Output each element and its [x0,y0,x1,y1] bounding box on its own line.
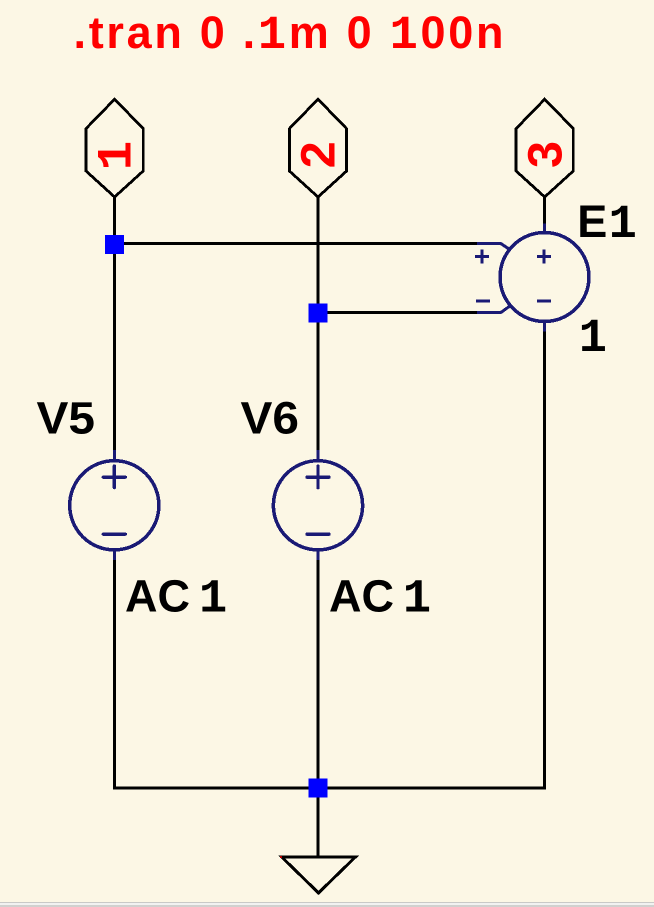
wire bottom rail [113,787,546,790]
wire port2 to node B [317,197,320,313]
svg-text:V6: V6 [241,393,300,444]
svg-text:3: 3 [518,141,572,168]
bottom node junction [309,779,328,798]
wire port3 to E1 top [543,197,546,226]
node B junction [309,303,328,322]
port flag 1 [86,99,146,197]
wire node B to E1 minus input [318,311,477,314]
svg-text:1: 1 [579,313,607,366]
svg-text:1: 1 [403,574,431,627]
ground corner artifact [280,856,282,858]
svg-text:V5: V5 [37,393,96,444]
svg-text:E: E [577,196,607,247]
svg-text:AC: AC [329,571,394,622]
window bottom scrollbar strip [0,902,654,903]
ground [282,857,356,893]
wire bottom node to ground [317,788,320,858]
port flag 3 [516,99,573,197]
node A junction [105,235,124,254]
port flag 2 [289,99,346,197]
svg-text:2: 2 [292,141,346,168]
wire node B to V6 top [317,313,320,452]
wire node A to V5 top [113,251,116,452]
label E1 [577,196,637,252]
svg-text:1: 1 [199,574,227,627]
wire port1 to node A [113,197,116,238]
wire node A to E1 plus input [115,242,478,245]
wire V6 bottom to bottom node [317,557,320,790]
wire E1 bottom to bottom rail [543,329,546,790]
svg-text:.tran 0 .1m 0 100n: .tran 0 .1m 0 100n [74,7,507,63]
value AC 1 of V6 [329,571,431,627]
voltage source V5 [70,450,159,560]
svg-text:1: 1 [609,199,637,252]
VCVS E1 [475,224,589,332]
value AC 1 of V5 [125,571,227,627]
svg-text:1: 1 [90,141,146,170]
voltage source V6 [273,450,362,560]
svg-text:AC: AC [125,571,190,622]
wire V5 bottom to bottom rail [113,557,116,790]
